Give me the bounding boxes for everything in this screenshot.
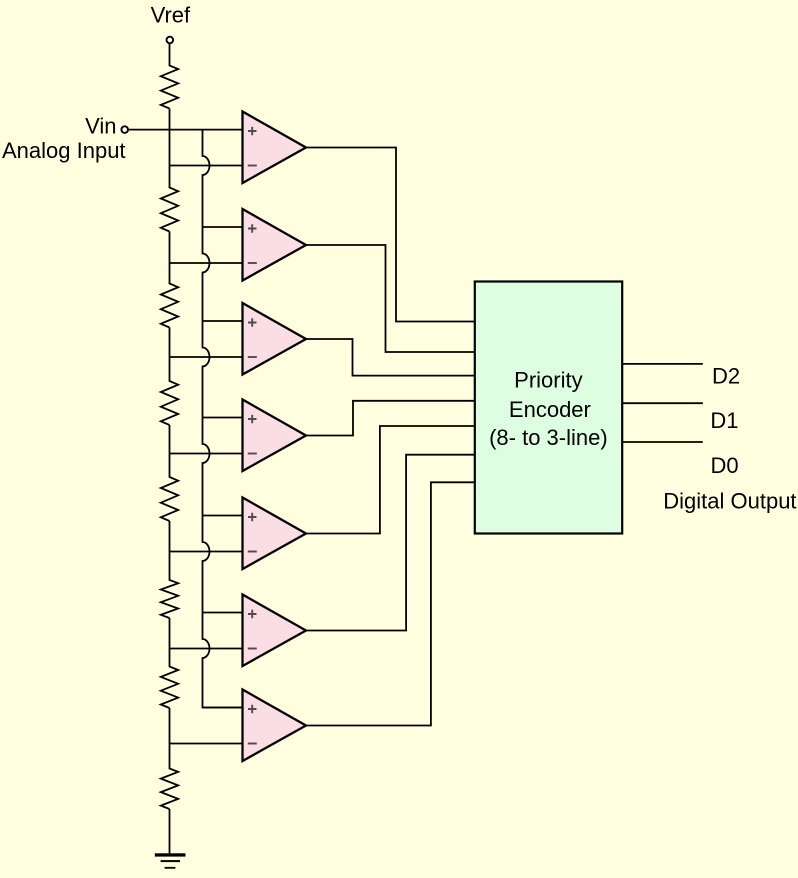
pin - of U4 xyxy=(248,453,257,455)
wire U2 output to encoder input 2 xyxy=(306,245,475,352)
pin - of U5 xyxy=(248,551,257,553)
op-amp comparator U5 xyxy=(243,498,307,570)
pin + of U3 xyxy=(248,318,257,327)
wire U5 output to encoder input 5 xyxy=(306,426,475,534)
pin - of U1 xyxy=(248,165,257,167)
wire Vin bus to U4 noninverting input xyxy=(203,417,243,419)
wire Vin bus to U7 noninverting input xyxy=(203,707,243,709)
pin + of U2 xyxy=(248,224,257,233)
resistor R5 xyxy=(161,425,178,521)
svg-text:Vin: Vin xyxy=(85,114,116,139)
pin - of U7 xyxy=(248,743,257,745)
pin + of U4 xyxy=(248,415,257,424)
op-amp comparator U2 xyxy=(243,209,307,281)
wire Vin bus to U2 noninverting input xyxy=(203,226,243,228)
svg-text:(8- to 3-line): (8- to 3-line) xyxy=(489,425,608,450)
pin - of U2 xyxy=(248,262,257,264)
resistor R2 xyxy=(161,109,178,232)
op-amp comparator U1 xyxy=(243,112,307,184)
resistor R6 xyxy=(161,521,178,618)
pin - of U6 xyxy=(248,648,257,650)
wire node 7 (ladder tap) to U7 inverting input xyxy=(170,743,243,745)
pin - of U3 xyxy=(248,356,257,358)
resistor R1 xyxy=(161,43,178,108)
wire Vin bus to U3 noninverting input xyxy=(203,320,243,322)
wire R8 to ground xyxy=(169,809,171,854)
wire U7 output to encoder input 7 xyxy=(306,482,475,725)
ground xyxy=(155,853,186,868)
wire D2 output xyxy=(622,363,703,365)
wire node 3 (ladder tap) to U3 inverting input xyxy=(170,356,243,358)
svg-text:Priority: Priority xyxy=(514,367,582,392)
wire node 4 (ladder tap) to U4 inverting input xyxy=(170,453,243,455)
wire U1 output to encoder input 1 xyxy=(306,148,475,322)
op-amp comparator U6 xyxy=(243,595,307,667)
resistor R4 xyxy=(161,328,178,426)
op-amp comparator U7 xyxy=(243,690,307,762)
svg-text:Analog Input: Analog Input xyxy=(2,138,126,163)
svg-text:Vref: Vref xyxy=(151,3,191,28)
svg-text:D2: D2 xyxy=(712,363,740,388)
svg-text:D0: D0 xyxy=(711,453,739,478)
op-amp comparator U3 xyxy=(243,303,307,375)
svg-text:D1: D1 xyxy=(710,408,738,433)
wire D1 output xyxy=(622,402,703,404)
wire node 5 (ladder tap) to U5 inverting input xyxy=(170,551,243,553)
encoder U8 Priority Encoder block xyxy=(475,282,622,534)
svg-text:Encoder: Encoder xyxy=(509,397,591,422)
pin + of U5 xyxy=(248,513,257,522)
svg-text:Digital Output: Digital Output xyxy=(663,489,796,514)
pin + of U6 xyxy=(248,610,257,619)
wire Vin bus (vertical, hops over ladder taps) xyxy=(203,130,243,708)
wire node 2 (ladder tap) to U2 inverting input xyxy=(170,262,243,264)
wire U6 output to encoder input 6 xyxy=(306,455,475,631)
pin + of U1 xyxy=(248,127,257,136)
resistor R8 xyxy=(161,708,178,809)
terminal Vin xyxy=(121,126,128,133)
wire Vin to U1 noninverting input xyxy=(128,129,243,131)
resistor R7 xyxy=(161,618,178,708)
wire node 1 (ladder tap) to U1 inverting input xyxy=(170,165,243,167)
wire D0 output xyxy=(622,441,703,443)
pin + of U7 xyxy=(248,705,257,714)
terminal Vref xyxy=(167,37,174,44)
op-amp comparator U4 xyxy=(243,400,307,472)
wire node 6 (ladder tap) to U6 inverting input xyxy=(170,648,243,650)
wire Vin bus to U5 noninverting input xyxy=(203,515,243,517)
wire U3 output to encoder input 3 xyxy=(306,339,475,376)
resistor R3 xyxy=(161,232,178,328)
wire Vin bus to U6 noninverting input xyxy=(203,612,243,614)
wire U4 output to encoder input 4 xyxy=(306,401,475,436)
